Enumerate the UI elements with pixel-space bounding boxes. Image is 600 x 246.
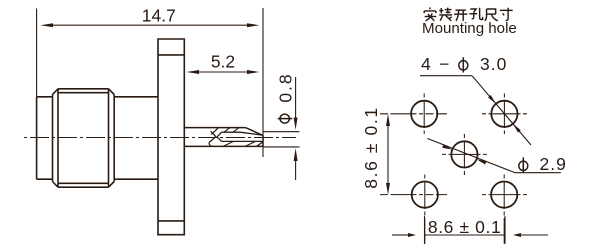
pin inner lines (222, 132, 264, 146)
break squiggle (209, 128, 219, 147)
title chinese 安装开孔尺寸 (drawn strokes) (424, 7, 513, 20)
crosshair top-left (380, 94, 447, 135)
flange (158, 39, 184, 235)
hole top-left (411, 101, 437, 127)
leader diagonal through top-right hole (472, 76, 531, 145)
pin chamfer hatches (223, 128, 256, 147)
hole bottom-left (412, 182, 438, 208)
char kong (469, 8, 482, 20)
bottom extension lines (425, 216, 506, 244)
hex coupling nut (53, 89, 115, 187)
dimension 14.7 (53, 24, 247, 26)
label phi 2.9 (519, 157, 528, 172)
crosshair bottom-left (380, 175, 447, 244)
extension line left (14.7) (36, 9, 38, 97)
centerline main view (24, 137, 296, 139)
svg-text:5.2: 5.2 (211, 52, 235, 72)
char zhuang (439, 8, 452, 21)
svg-text:8.6 ± 0.1: 8.6 ± 0.1 (428, 217, 501, 237)
svg-text:−: − (439, 54, 449, 74)
svg-text:3.0: 3.0 (480, 54, 507, 74)
pin point chevron (217, 132, 222, 141)
svg-text:4: 4 (421, 54, 431, 74)
mounting holes (411, 101, 517, 208)
leader phi 2.9 through centre hole (428, 139, 561, 173)
bottom dimension 8.6 +/- 0.1 (392, 234, 408, 236)
dimension phi 0.8 arrows (295, 77, 297, 118)
body mid section (114, 97, 158, 179)
leader shelf 4-phi3.0 (420, 75, 472, 77)
crosshair centre (442, 134, 487, 175)
char cun (500, 8, 513, 21)
char kai (454, 10, 467, 21)
crosshair top-right (482, 94, 527, 135)
vertical dimension 8.6 +/- 0.1 (387, 126, 389, 183)
hole centre (451, 141, 477, 167)
extension line right (14.7/5.2) (262, 8, 264, 157)
connector body rear section (37, 97, 53, 179)
hole bottom-right (491, 182, 517, 208)
crosshair bottom-right (482, 175, 527, 244)
extension lines phi 0.8 (263, 132, 300, 147)
char chi (485, 9, 498, 21)
svg-text:2.9: 2.9 (540, 154, 567, 174)
svg-text:0.8: 0.8 (276, 72, 296, 102)
pin bushing outer (184, 128, 263, 147)
svg-text:14.7: 14.7 (142, 6, 176, 26)
char an (424, 7, 436, 20)
hole top-right (491, 101, 517, 127)
svg-text:8.6 ± 0.1: 8.6 ± 0.1 (361, 106, 381, 188)
svg-text:Mounting hole: Mounting hole (422, 20, 517, 37)
dimension 5.2 (199, 71, 247, 73)
